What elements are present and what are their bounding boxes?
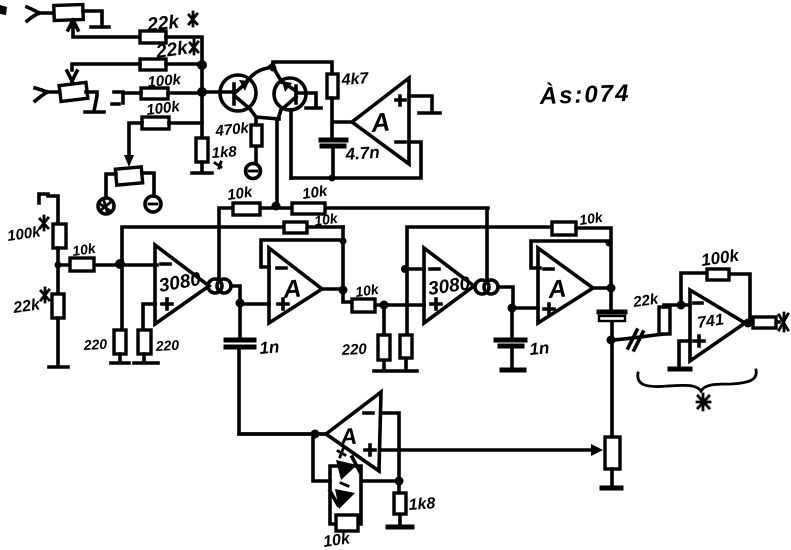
svg-text:10k: 10k — [226, 184, 254, 204]
svg-text:10k: 10k — [354, 281, 381, 300]
svg-text:10k: 10k — [71, 240, 98, 259]
svg-text:100k: 100k — [147, 71, 182, 91]
svg-text:1k8: 1k8 — [408, 495, 436, 514]
svg-text:4.7n: 4.7n — [344, 143, 380, 164]
svg-text:1k8: 1k8 — [211, 143, 238, 162]
svg-text:A: A — [369, 106, 391, 138]
svg-text:470k: 470k — [214, 120, 251, 141]
svg-text:A: A — [338, 423, 358, 450]
svg-text:10k: 10k — [301, 183, 329, 203]
svg-text:4k7: 4k7 — [340, 70, 370, 89]
svg-text:10k: 10k — [313, 210, 340, 229]
svg-text:A: A — [546, 275, 567, 305]
svg-text:1n: 1n — [259, 337, 280, 358]
svg-text:Às:074: Às:074 — [538, 79, 631, 110]
svg-text:220: 220 — [82, 336, 107, 353]
svg-text:1n: 1n — [529, 338, 550, 359]
svg-text:A: A — [281, 275, 302, 305]
svg-text:10k: 10k — [322, 530, 352, 550]
svg-text:10k: 10k — [578, 209, 605, 228]
svg-text:22k: 22k — [145, 12, 181, 36]
svg-text:220: 220 — [340, 341, 368, 359]
svg-text:220: 220 — [154, 337, 179, 354]
